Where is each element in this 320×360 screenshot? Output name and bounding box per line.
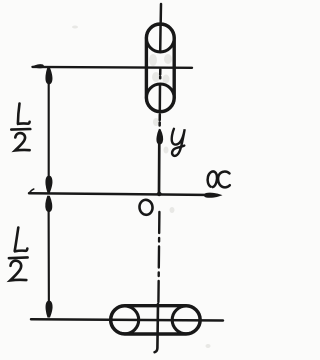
- tick arrow at left end of top extension line: [32, 64, 44, 68]
- label O (origin): [139, 199, 154, 216]
- dumbbell top: lower sphere: [146, 84, 174, 112]
- label x (script): [208, 171, 230, 187]
- x-axis arrowhead: [204, 193, 221, 197]
- dumbbell bottom: right sphere: [172, 306, 200, 334]
- dimension line lower L/2: [48, 198, 50, 315]
- dumbbell bottom (horizontal capsule outline): [111, 306, 201, 334]
- label L/2 upper: 2: [15, 133, 30, 150]
- hook at left end of x-axis line: [29, 189, 34, 193]
- dimension line upper L/2: [48, 70, 50, 190]
- upper dim arrow bottom (points down): [46, 176, 52, 192]
- dumbbell top: lower sphere axis line: [159, 85, 162, 112]
- bottom extension line (through lower dumbbell center): [31, 319, 223, 320]
- y-axis (solid, from origin up, with arrow): [158, 140, 161, 194]
- lower dim arrow top (points up): [46, 196, 52, 212]
- y-axis arrowhead: [157, 129, 163, 144]
- dumbbell top: upper sphere axis line: [159, 24, 162, 52]
- dumbbell top (vertical capsule outline): [146, 24, 174, 112]
- dumbbell bottom: left sphere: [111, 306, 139, 334]
- centerline (vertical dash-dot axis of rotation): [155, 4, 161, 352]
- dumbbell top: upper sphere: [146, 24, 174, 52]
- label L/2 lower: 2: [10, 261, 26, 281]
- label L/2 upper: fraction bar: [11, 128, 30, 131]
- origin junction blob: [157, 192, 162, 196]
- label y (script): [172, 129, 185, 156]
- label L/2 upper: L: [18, 104, 30, 124]
- upper dim arrow top (points up): [46, 68, 52, 84]
- extension line top (through upper dumbbell center): [33, 66, 193, 69]
- label L/2 lower: fraction bar: [9, 256, 28, 259]
- label L/2 lower: L: [15, 228, 28, 252]
- x-axis line (also middle extension line): [29, 193, 212, 195]
- lower dim arrow bottom (points down): [46, 301, 52, 317]
- scan smudge inside top capsule: [72, 26, 211, 349]
